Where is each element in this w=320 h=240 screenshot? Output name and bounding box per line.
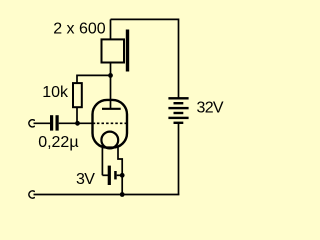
tube V1 grid dashed line	[97, 122, 126, 124]
node battery junction	[120, 173, 125, 178]
wire filament right lead	[118, 146, 122, 195]
wire battery right to junction	[117, 174, 123, 176]
earphone LS1 diaphragm bar	[126, 30, 129, 72]
tube V1 anode lead inside	[110, 99, 112, 109]
wire top rail	[111, 18, 179, 20]
battery B2 3V short plate	[114, 171, 117, 179]
resistor R1 10k body	[73, 83, 82, 107]
wire right rail lower	[178, 123, 180, 194]
battery B1 32V cell bar short 2	[174, 112, 184, 114]
svg-text:10k: 10k	[42, 84, 69, 101]
node grid junction	[75, 121, 80, 126]
svg-text:2 x 600: 2 x 600	[53, 21, 106, 38]
tube V1 envelope	[93, 100, 128, 148]
wire capacitor to grid	[59, 122, 95, 124]
input terminal upper	[29, 120, 35, 127]
wire filament left to battery	[102, 174, 108, 176]
wire input to capacitor	[34, 122, 51, 124]
wire resistor top horizontal	[77, 74, 111, 76]
battery B2 3V long plate	[108, 166, 111, 185]
svg-text:32V: 32V	[197, 100, 224, 117]
node anode junction	[108, 73, 113, 78]
battery B1 32V cell bar short 1	[174, 102, 184, 104]
tube V1 anode plate bar	[102, 108, 121, 110]
capacitor C1 right plate	[56, 115, 59, 130]
battery B1 32V cell bar long 2	[168, 107, 188, 109]
battery B1 32V cell bar long 3	[168, 117, 188, 119]
svg-text:0,22µ: 0,22µ	[38, 134, 78, 151]
tube V1 filament loop	[101, 132, 118, 149]
svg-text:3V: 3V	[76, 171, 95, 188]
wire filament left lead	[101, 144, 103, 176]
wire right rail upper	[178, 19, 180, 98]
wire resistor bottom lead	[76, 107, 78, 123]
input terminal lower	[29, 191, 35, 198]
battery B1 32V cell bar short 3	[174, 122, 184, 124]
node bottom rail junction	[120, 192, 125, 197]
battery B1 32V cell bar long 1	[168, 97, 188, 99]
wire resistor top lead	[76, 75, 78, 84]
capacitor C1 left plate	[50, 115, 53, 130]
wire earphone bottom lead to anode node	[110, 63, 112, 101]
wire earphone top lead	[110, 19, 112, 39]
wire bottom rail	[34, 194, 180, 196]
earphone LS1 body	[102, 39, 125, 62]
